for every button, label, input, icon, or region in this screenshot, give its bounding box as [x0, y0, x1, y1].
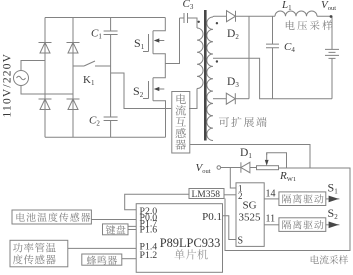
wire buzzer to MCU — [122, 258, 136, 260]
arrow to S2 — [326, 224, 340, 226]
wire L1 to battery — [317, 16, 332, 49]
svg-text:C2: C2 — [89, 115, 100, 128]
wire CT output long run — [190, 145, 310, 169]
wire keypad to MCU (2) — [128, 226, 136, 229]
box 功率管温度传感器 — [10, 240, 68, 266]
wire primary bottom to CT — [189, 89, 197, 109]
wire Vout junction to SG3525 pin1 — [230, 168, 236, 189]
wire C-midpoint to current transformer — [111, 73, 172, 109]
wire AC bottom to bridge right leg — [21, 86, 73, 95]
MCU box P89LPC933 — [136, 204, 222, 273]
svg-text:L1: L1 — [281, 0, 292, 12]
AC source G1 — [14, 71, 29, 86]
wire center tap to return rail — [213, 58, 332, 98]
svg-text:S: S — [238, 236, 244, 247]
diode bridge upper-left — [39, 43, 52, 54]
current transformer box 电流互感器 — [172, 92, 190, 154]
wire AC top to bridge left leg — [21, 61, 45, 71]
svg-text:11: 11 — [266, 214, 276, 225]
svg-text:3525: 3525 — [239, 212, 262, 224]
svg-text:P89LPC933: P89LPC933 — [160, 236, 221, 250]
svg-text:S1: S1 — [328, 181, 339, 196]
wire secondary lower tap — [213, 98, 226, 100]
label 单片机 — [174, 249, 207, 259]
svg-text:S1: S1 — [134, 36, 145, 51]
svg-text:110V/220V: 110V/220V — [2, 53, 14, 118]
node dot Vout — [330, 15, 333, 18]
transformer T1 secondary winding — [207, 17, 213, 141]
diode bridge lower-right — [67, 99, 80, 110]
svg-text:RW1: RW1 — [279, 170, 296, 183]
relay contact K1 — [73, 61, 111, 66]
wire top bus — [45, 17, 165, 19]
wire bridge left leg — [44, 18, 46, 138]
node Vout terminal — [217, 166, 221, 170]
svg-text:S2: S2 — [133, 84, 144, 99]
diode D2 — [227, 11, 236, 22]
svg-text:Vout: Vout — [321, 0, 336, 12]
polarity dot secondary lower — [216, 60, 218, 62]
driver box 隔离驱动 upper — [279, 192, 326, 206]
diode bridge upper-right — [67, 43, 80, 54]
wire D1 to RW1 — [250, 167, 257, 169]
box 键盘 — [103, 224, 129, 235]
svg-text:P1.2: P1.2 — [140, 250, 158, 261]
label 电压采样 — [286, 20, 332, 30]
svg-text:S2: S2 — [328, 206, 339, 221]
svg-text:C1: C1 — [91, 28, 102, 41]
inductor L1 — [275, 11, 317, 16]
wire bridge right leg — [72, 18, 74, 138]
wire LM358 current sample input — [224, 199, 226, 251]
wire D3 cathode — [235, 98, 249, 100]
diode D1 — [241, 162, 250, 172]
box 电池温度传感器 — [12, 210, 91, 224]
wire bottom bus — [45, 136, 166, 138]
PWM controller U2 SG3525 — [236, 183, 264, 247]
wire junction to D3 cathode — [248, 16, 250, 99]
diode bridge lower-left — [39, 99, 52, 110]
wire LM358 to pin2 — [224, 194, 236, 196]
wire P0.1 to S pin — [223, 216, 237, 240]
svg-text:D2: D2 — [227, 28, 239, 41]
capacitor C1 — [104, 18, 118, 118]
wire power-tube sensor to MCU — [68, 247, 136, 249]
potentiometer RW1 wiper — [267, 153, 287, 168]
polarity dot secondary upper — [216, 22, 218, 24]
capacitor C4 — [266, 16, 279, 99]
label 电流采样 — [311, 255, 348, 264]
battery BT1 — [325, 49, 339, 98]
wire Vout to D1 — [221, 167, 241, 169]
svg-text:LM358: LM358 — [192, 190, 221, 200]
transformer T1 primary winding — [197, 28, 203, 88]
svg-text:C3: C3 — [183, 0, 194, 11]
wire LM358 to P2.0 — [125, 194, 189, 210]
wire D2 cathode to L1 — [236, 15, 276, 17]
svg-text:D3: D3 — [227, 76, 239, 89]
polarity dot primary — [198, 21, 200, 23]
svg-text:P0.1: P0.1 — [202, 211, 222, 223]
label 可扩展端 — [219, 117, 267, 127]
driver box 隔离驱动 lower — [279, 218, 326, 232]
svg-text:Vout: Vout — [196, 162, 211, 175]
arrow to S1 — [326, 198, 340, 200]
op-amp box LM358 — [189, 189, 224, 199]
transistor S1 — [143, 18, 165, 64]
wire RW1 right rail — [225, 168, 350, 251]
capacitor C2 — [104, 117, 118, 137]
svg-text:D1: D1 — [240, 147, 252, 160]
diode D3 — [226, 93, 235, 104]
transformer core — [204, 10, 207, 141]
svg-text:P1.6: P1.6 — [140, 225, 158, 236]
transistor S2 — [143, 64, 166, 138]
svg-text:14: 14 — [266, 189, 276, 200]
svg-text:C4: C4 — [284, 41, 295, 54]
wire node A to C3 riser — [165, 18, 179, 64]
potentiometer RW1 body — [257, 166, 279, 170]
capacitor C3 — [180, 13, 198, 28]
wire battery sensor to MCU — [91, 219, 136, 221]
box 蜂鸣器 — [82, 254, 122, 265]
svg-text:SG: SG — [243, 200, 257, 212]
svg-text:K1: K1 — [83, 74, 95, 87]
wire secondary top tap — [213, 15, 227, 18]
